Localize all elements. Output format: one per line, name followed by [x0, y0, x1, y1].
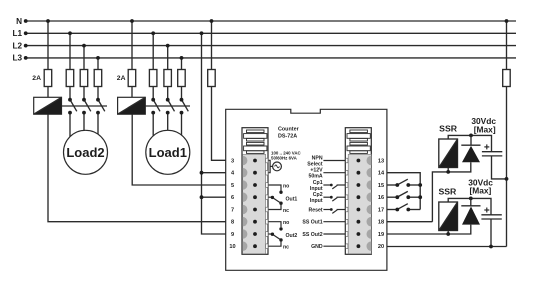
wire pin 18 stub [323, 221, 345, 223]
svg-text:Counter: Counter [278, 126, 300, 132]
wire pin 19 stub [323, 233, 345, 235]
svg-text:Input: Input [310, 186, 323, 192]
relay contact Out1 common [269, 196, 272, 198]
node L3 tap for K2-3 [96, 56, 100, 60]
contactor coil K2 [34, 97, 62, 114]
svg-text:3: 3 [231, 159, 234, 165]
svg-text:Load2: Load2 [66, 145, 104, 160]
wire coil K1 to terminal 5 [132, 114, 226, 185]
svg-text:no: no [283, 183, 289, 189]
terminal 10 left cell [243, 241, 248, 251]
svg-text:no: no [283, 220, 289, 226]
wire terminal 4 feed [202, 172, 226, 174]
wire GND bus pin 20 to DC minus [387, 246, 507, 248]
svg-text:Out1: Out1 [286, 196, 298, 202]
contact K1-1 [153, 101, 160, 138]
svg-text:50mA: 50mA [308, 174, 322, 180]
terminal 5 left cell [243, 180, 248, 190]
node N tap for K2 [46, 19, 50, 23]
switch NPN select pin 17 [387, 204, 420, 210]
node SSR2 bottom junction [446, 232, 450, 236]
wire drop from L2 to fuse and contact K1-2 [167, 46, 169, 70]
connector plug right 1 [347, 130, 370, 141]
wire pin 14 to select bus [387, 173, 420, 210]
svg-text:L1: L1 [12, 29, 22, 38]
node L1 left end [24, 31, 28, 35]
diode D2 [461, 206, 480, 225]
relay contact Out2 nc wire [269, 242, 281, 247]
fuse F4 right [503, 70, 511, 87]
wire SSR1 bottom bus [432, 162, 470, 221]
node L1 tap for supply [200, 31, 204, 35]
contact K2-3 [98, 101, 105, 137]
wire drop from N to fuse F2 and contactor coil K1 [131, 21, 133, 70]
svg-text:SS Out1: SS Out1 [302, 220, 322, 226]
terminal 4 left cell [243, 168, 248, 178]
svg-text:SSR: SSR [438, 186, 457, 196]
wire N bus [25, 20, 516, 22]
node L2 tap for K1-2 [166, 44, 170, 48]
wire SSR1 bottom lead [447, 168, 449, 172]
terminal strip left body [243, 154, 266, 253]
wire SSR1 top bus [448, 135, 491, 151]
terminal 18 right cell [366, 217, 371, 227]
svg-text:7: 7 [231, 208, 234, 214]
wire drop from N to fuse F1 and contactor coil K2 [47, 21, 49, 70]
wire drop from L1 to fuse and contact K1-1 [152, 33, 154, 69]
svg-text:8: 8 [231, 220, 234, 226]
svg-text:SSR: SSR [439, 124, 458, 134]
node L2 tap for K2-2 [82, 44, 86, 48]
relay contact Out1 nc wire [269, 205, 281, 210]
diode D1 [461, 145, 480, 162]
wire SSR2 bottom lead [447, 231, 449, 235]
terminal 15 right cell [366, 180, 371, 190]
wire L3 bus [25, 57, 516, 59]
svg-text:2A: 2A [32, 75, 41, 82]
node L2 left end [24, 44, 28, 48]
wire drop from N through fuse F4 to DC minus bus [506, 21, 508, 70]
terminal 14 right cell [366, 168, 371, 178]
svg-text:10: 10 [229, 244, 235, 250]
terminal column left housing [242, 128, 268, 255]
relay contact Out2 no wire [269, 222, 281, 228]
terminal 8 left cell [243, 217, 248, 227]
node L1 tap for K1-1 [151, 31, 155, 35]
fuse F1 2A [44, 70, 52, 87]
node SSR1 bottom junction [446, 170, 450, 174]
svg-text:L3: L3 [12, 54, 22, 63]
svg-text:L2: L2 [12, 41, 22, 50]
wire drop from L1 to terminals 4,6,9 [202, 33, 226, 234]
svg-text:20: 20 [378, 244, 384, 250]
terminal 13 right cell [366, 156, 371, 166]
svg-text:Reset: Reset [308, 207, 322, 213]
load Load2 [64, 130, 108, 174]
capacitor C1 [482, 144, 502, 156]
terminal 19 right cell [366, 229, 371, 239]
wire pin 13 stub [323, 160, 345, 162]
node SSR2 top junction [469, 197, 473, 201]
node N tap right [505, 19, 509, 23]
connector plug left 1 [244, 130, 267, 141]
contact K1-3 [182, 101, 189, 137]
wire pin 20 stub [323, 245, 345, 247]
contact K2-2 [84, 101, 91, 132]
terminal 20 right cell [366, 241, 371, 251]
connector plug right 2 [347, 142, 370, 153]
terminal strip right body [348, 154, 371, 253]
connector plug left 2 [244, 142, 267, 153]
svg-text:DS-72A: DS-72A [278, 134, 297, 140]
wire drop from L1 to fuse and contact K2-1 [69, 33, 71, 69]
wire drop from L3 to fuse and contact K2-3 [97, 58, 99, 70]
svg-text:2A: 2A [117, 75, 126, 82]
fuse K1-2 [164, 70, 172, 87]
svg-text:19: 19 [378, 232, 384, 238]
terminal 7 left cell [243, 205, 248, 215]
wire terminal 3 to AC source [269, 160, 271, 172]
AC source symbol [273, 162, 282, 171]
switch Cp2 input [323, 196, 330, 198]
svg-text:SS Out2: SS Out2 [302, 232, 322, 238]
terminal 9 left cell [243, 229, 248, 239]
svg-text:nc: nc [283, 208, 289, 214]
node L3 left end [24, 56, 28, 60]
svg-text:nc: nc [283, 245, 289, 251]
wire terminal 6 feed [202, 196, 226, 198]
wire C1 to DC minus [492, 156, 507, 179]
svg-text:N: N [16, 17, 22, 26]
fuse F3 supply [208, 70, 216, 87]
node junction terminal 4 [200, 171, 204, 175]
wire drop from L2 to fuse and contact K2-2 [83, 46, 85, 70]
contactor coil K1 [118, 97, 146, 114]
svg-text:5: 5 [231, 183, 234, 189]
svg-text:18: 18 [378, 220, 384, 226]
counter U1 DS-72A outline [226, 109, 387, 270]
fuse K1-3 [178, 70, 186, 87]
contact K1-2 [168, 101, 175, 132]
fuse F2 2A [128, 70, 136, 87]
wire C2 to GND bus [490, 219, 492, 247]
svg-text:16: 16 [378, 195, 384, 201]
wire coil K2 to terminal 8 [48, 114, 226, 222]
svg-text:Input: Input [310, 198, 323, 204]
wire linkage K1 [145, 105, 190, 107]
wire drop from N through fuse F3 to terminal 3 [211, 21, 213, 70]
svg-text:[Max]: [Max] [474, 125, 496, 135]
node L3 tap for K1-3 [180, 56, 184, 60]
svg-text:Out2: Out2 [286, 233, 298, 239]
wire L2 bus [25, 45, 516, 47]
terminal 3 left cell [243, 156, 248, 166]
svg-text:13: 13 [378, 159, 384, 165]
terminal column right housing [345, 128, 371, 255]
wire diode D2 cathode drop [470, 198, 472, 205]
fuse K2-1 [66, 70, 74, 87]
wire pin 14 stub [323, 172, 345, 174]
contact K2-1 [70, 101, 77, 138]
relay contact Out1 no wire [269, 185, 281, 191]
terminal 17 right cell [366, 205, 371, 215]
svg-text:Select: Select [307, 161, 323, 167]
SSR1 body [439, 139, 458, 168]
svg-text:17: 17 [378, 208, 384, 214]
fuse K2-2 [80, 70, 88, 87]
load Load1 [146, 130, 190, 174]
wire pin 19 to SSR2 and diode D2 [387, 225, 471, 234]
node C2 GND junction [489, 245, 493, 249]
svg-text:14: 14 [378, 171, 385, 177]
svg-text:15: 15 [378, 183, 384, 189]
node junction terminal 6 [200, 195, 204, 199]
terminal 6 left cell [243, 192, 248, 202]
wire SSR2 top bus [448, 198, 491, 214]
svg-text:[Max]: [Max] [469, 185, 491, 195]
svg-text:GND: GND [311, 244, 323, 250]
SSR2 body [439, 202, 458, 231]
wire pin 18 to SSR1 [387, 221, 433, 223]
svg-text:50/60Hz 6VA: 50/60Hz 6VA [271, 155, 298, 160]
svg-text:Load1: Load1 [149, 145, 187, 160]
node SSR1 top junction [469, 134, 473, 138]
node N tap for K1 [130, 19, 134, 23]
node DC minus junction [505, 177, 509, 181]
wire drop from L3 to fuse and contact K1-3 [181, 58, 183, 70]
node N tap for supply [210, 19, 214, 23]
svg-text:9: 9 [231, 232, 234, 238]
wire L1 bus [25, 32, 516, 34]
node L1 tap for K2-1 [68, 31, 72, 35]
switch NPN select pin 16 [387, 191, 420, 197]
switch NPN select pin 15 [387, 179, 420, 185]
fuse K2-3 [94, 70, 102, 87]
fuse K1-1 [149, 70, 157, 87]
terminal 16 right cell [366, 192, 371, 202]
switch Cp1 input [323, 184, 330, 186]
wire diode D1 cathode drop [470, 135, 472, 145]
svg-text:6: 6 [231, 195, 234, 201]
relay contact Out2 common [269, 233, 272, 235]
switch Reset input [323, 209, 330, 211]
node N left end [24, 19, 28, 23]
wire AC source tap [270, 165, 273, 167]
wire linkage K2 [62, 105, 108, 107]
capacitor C2 [481, 208, 501, 220]
